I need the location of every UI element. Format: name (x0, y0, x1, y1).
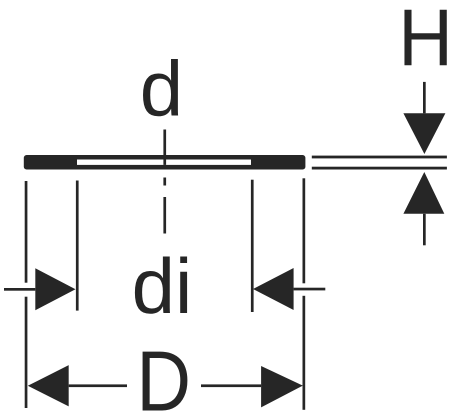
D left extension line lower segment (25, 297, 28, 408)
H bottom arrow stem (423, 214, 426, 246)
inner bore slot (white) (77, 160, 251, 165)
di dimension line left (4, 288, 35, 291)
seal cross-section bar (24, 155, 306, 170)
H top arrowhead (403, 113, 445, 154)
di right extension line (251, 180, 254, 312)
di dimension line right (294, 288, 326, 291)
svg-text:d: d (140, 45, 183, 133)
di left arrowhead (35, 268, 75, 310)
H extension line bottom (312, 167, 447, 170)
label D (136, 335, 191, 416)
D dimension line left segment (69, 384, 127, 387)
H bottom arrowhead (403, 172, 444, 214)
svg-text:H: H (398, 0, 450, 83)
D right arrowhead (261, 366, 303, 407)
label H (398, 0, 450, 83)
H extension line top (312, 156, 447, 159)
D right extension line upper segment (303, 178, 306, 283)
svg-text:di: di (132, 242, 193, 330)
centerline dash 2 below bar (163, 197, 166, 234)
d extension line above bar (163, 130, 166, 156)
D right extension line lower segment (303, 296, 306, 410)
di right arrowhead (253, 268, 294, 310)
centerline crossing slot (163, 160, 166, 165)
D left arrowhead (28, 365, 69, 406)
D left extension line upper segment (25, 181, 28, 283)
centerline dash 1 below bar (163, 178, 166, 186)
di left extension line (76, 181, 79, 311)
H top arrow stem (423, 82, 426, 113)
D dimension line right segment (201, 384, 261, 387)
svg-text:D: D (136, 335, 191, 416)
